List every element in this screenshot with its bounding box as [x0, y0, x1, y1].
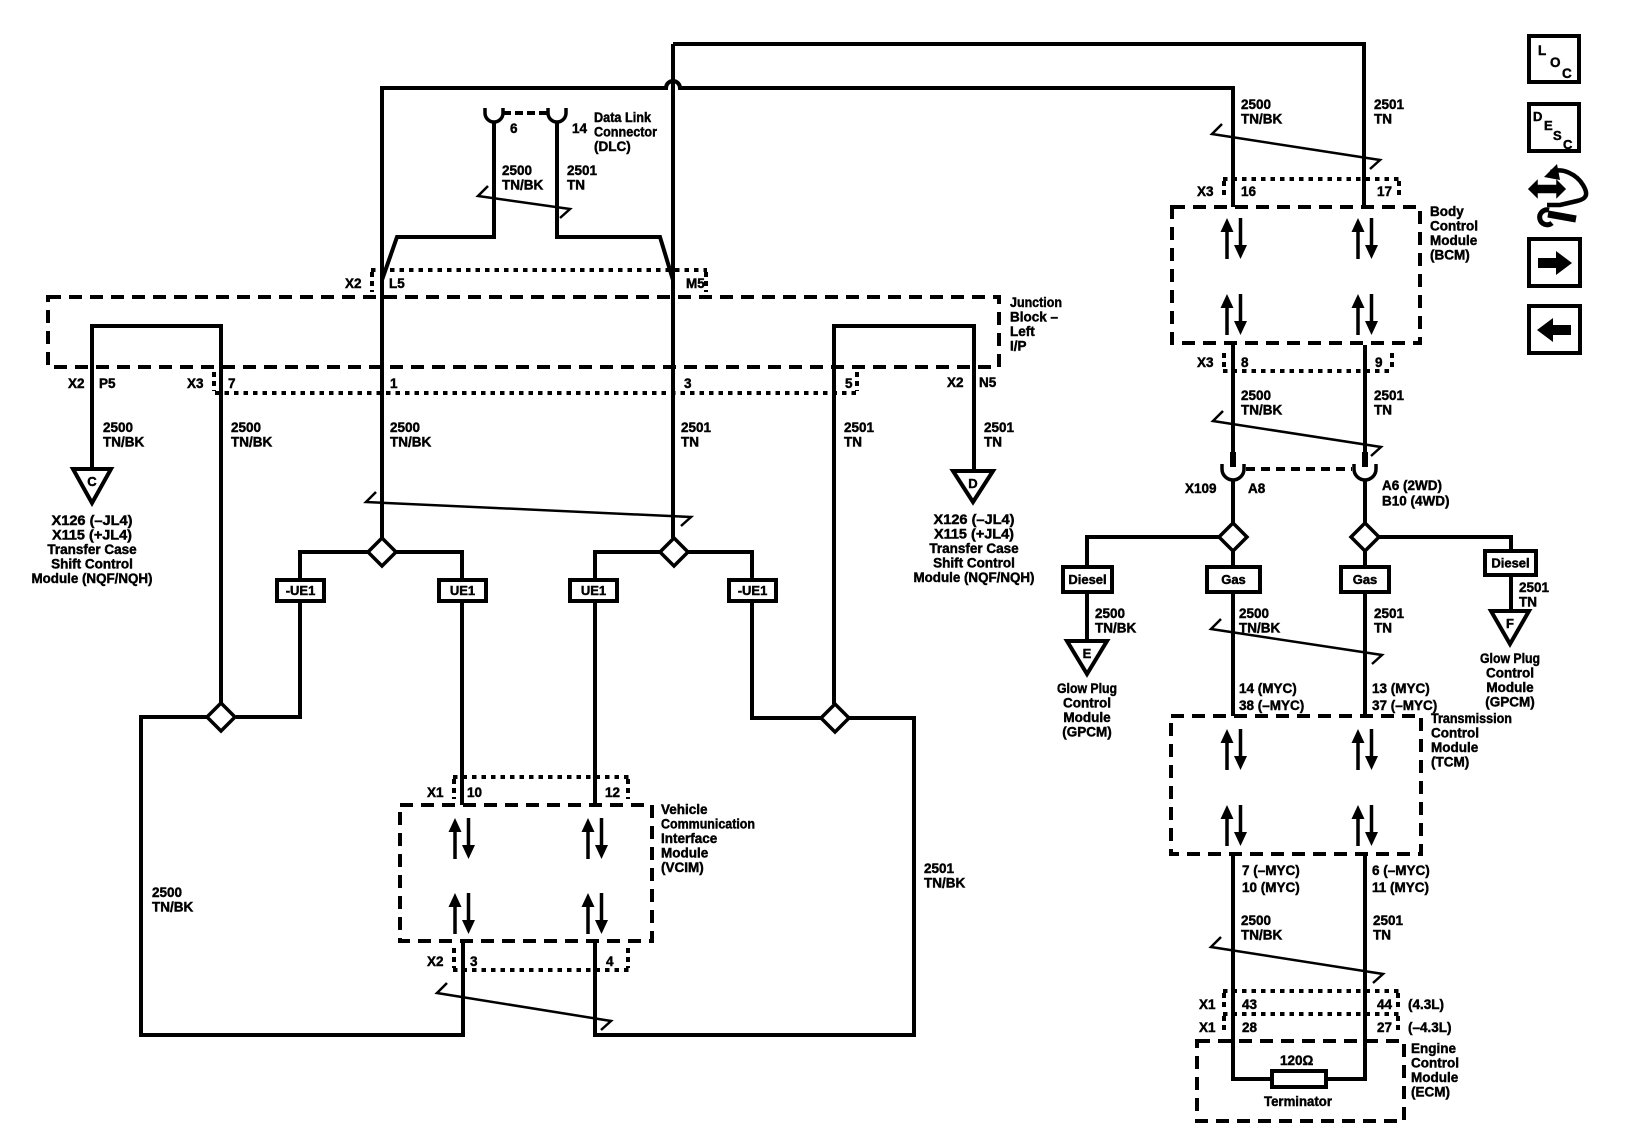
svg-text:TN: TN [844, 435, 862, 450]
svg-text:X115 (+JL4): X115 (+JL4) [934, 527, 1014, 542]
svg-text:-UE1: -UE1 [738, 583, 768, 598]
svg-text:43: 43 [1242, 997, 1258, 1012]
svg-text:Module (NQF/NQH): Module (NQF/NQH) [914, 570, 1035, 585]
svg-text:Connector: Connector [594, 125, 658, 140]
svg-text:(VCIM): (VCIM) [661, 860, 704, 875]
svg-text:Transmission: Transmission [1431, 711, 1512, 726]
svg-text:14 (MYC): 14 (MYC) [1239, 681, 1297, 696]
svg-text:2500: 2500 [1241, 388, 1271, 403]
svg-text:TN: TN [1374, 403, 1392, 418]
svg-text:Module: Module [1063, 710, 1111, 725]
svg-text:D: D [968, 476, 977, 491]
svg-text:16: 16 [1241, 184, 1257, 199]
svg-text:Junction: Junction [1010, 295, 1062, 310]
svg-text:N5: N5 [979, 375, 997, 390]
svg-text:7: 7 [228, 376, 236, 391]
svg-text:12: 12 [605, 785, 620, 800]
svg-text:2501: 2501 [924, 861, 955, 876]
svg-text:Communication: Communication [661, 817, 755, 832]
svg-text:Gas: Gas [1353, 572, 1378, 587]
svg-text:2500: 2500 [502, 163, 532, 178]
svg-text:X3: X3 [1197, 184, 1214, 199]
svg-text:S: S [1553, 128, 1562, 143]
svg-text:2500: 2500 [390, 420, 420, 435]
svg-text:Shift Control: Shift Control [51, 557, 133, 572]
svg-text:27: 27 [1377, 1020, 1392, 1035]
svg-text:Control: Control [1430, 219, 1478, 234]
svg-text:X2: X2 [345, 276, 362, 291]
svg-text:Gas: Gas [1221, 572, 1246, 587]
svg-text:Interface: Interface [661, 831, 718, 846]
svg-text:2501: 2501 [984, 420, 1015, 435]
svg-text:TN/BK: TN/BK [103, 435, 144, 450]
svg-text:X1: X1 [1199, 1020, 1216, 1035]
svg-text:X3: X3 [187, 376, 204, 391]
svg-text:Module (NQF/NQH): Module (NQF/NQH) [32, 571, 153, 586]
svg-text:Vehicle: Vehicle [661, 802, 708, 817]
svg-text:2500: 2500 [152, 885, 182, 900]
svg-text:A8: A8 [1248, 481, 1266, 496]
svg-text:17: 17 [1377, 184, 1392, 199]
svg-text:1: 1 [390, 376, 398, 391]
svg-text:6: 6 [510, 121, 518, 136]
svg-text:C: C [87, 474, 97, 489]
svg-text:Glow Plug: Glow Plug [1480, 651, 1540, 666]
svg-text:3: 3 [684, 376, 692, 391]
svg-text:Control: Control [1431, 726, 1479, 741]
svg-text:TN/BK: TN/BK [1095, 621, 1136, 636]
svg-text:Terminator: Terminator [1264, 1094, 1333, 1109]
svg-text:X1: X1 [1199, 997, 1216, 1012]
svg-text:Transfer Case: Transfer Case [47, 542, 137, 557]
svg-text:Diesel: Diesel [1491, 556, 1529, 571]
svg-text:E: E [1083, 646, 1092, 661]
svg-text:4: 4 [606, 954, 614, 969]
svg-text:2501: 2501 [1374, 97, 1405, 112]
svg-text:(GPCM): (GPCM) [1485, 695, 1535, 710]
svg-text:13 (MYC): 13 (MYC) [1372, 681, 1430, 696]
svg-text:Glow Plug: Glow Plug [1057, 681, 1117, 696]
svg-text:38 (–MYC): 38 (–MYC) [1239, 698, 1304, 713]
svg-text:9: 9 [1375, 355, 1383, 370]
svg-text:28: 28 [1242, 1020, 1258, 1035]
svg-text:Transfer Case: Transfer Case [929, 541, 1019, 556]
svg-text:TN: TN [984, 435, 1002, 450]
svg-text:X115 (+JL4): X115 (+JL4) [52, 528, 132, 543]
svg-text:(ECM): (ECM) [1411, 1085, 1450, 1100]
svg-text:37 (–MYC): 37 (–MYC) [1372, 698, 1437, 713]
svg-text:5: 5 [845, 376, 853, 391]
svg-text:11 (MYC): 11 (MYC) [1372, 880, 1429, 895]
svg-text:D: D [1533, 109, 1542, 124]
svg-text:2501: 2501 [1374, 388, 1405, 403]
svg-text:2500: 2500 [1241, 97, 1271, 112]
svg-text:TN/BK: TN/BK [1241, 403, 1282, 418]
svg-text:14: 14 [572, 121, 588, 136]
svg-text:3: 3 [470, 954, 478, 969]
svg-text:X2: X2 [947, 375, 964, 390]
svg-text:X126 (–JL4): X126 (–JL4) [52, 513, 133, 528]
svg-text:Left: Left [1010, 324, 1035, 339]
svg-text:(DLC): (DLC) [594, 139, 631, 154]
svg-text:X2: X2 [427, 954, 444, 969]
svg-text:(–4.3L): (–4.3L) [1408, 1020, 1452, 1035]
svg-text:TN/BK: TN/BK [502, 178, 543, 193]
svg-text:X126 (–JL4): X126 (–JL4) [934, 512, 1015, 527]
svg-text:2501: 2501 [1373, 913, 1404, 928]
svg-text:(BCM): (BCM) [1430, 248, 1470, 263]
svg-text:2500: 2500 [1239, 606, 1269, 621]
svg-text:Module: Module [1430, 233, 1478, 248]
svg-text:A6 (2WD): A6 (2WD) [1382, 478, 1442, 493]
svg-text:6 (–MYC): 6 (–MYC) [1372, 863, 1430, 878]
svg-text:Module: Module [1431, 740, 1479, 755]
svg-text:Control: Control [1411, 1056, 1459, 1071]
svg-text:TN/BK: TN/BK [1241, 928, 1282, 943]
svg-text:Body: Body [1430, 204, 1464, 219]
svg-text:TN: TN [1519, 595, 1537, 610]
svg-text:2501: 2501 [1374, 606, 1405, 621]
svg-text:(4.3L): (4.3L) [1408, 997, 1444, 1012]
svg-text:X2: X2 [68, 376, 85, 391]
svg-text:C: C [1562, 66, 1572, 81]
svg-text:2501: 2501 [567, 163, 598, 178]
svg-text:2501: 2501 [844, 420, 875, 435]
svg-text:TN/BK: TN/BK [1239, 621, 1280, 636]
svg-text:X109: X109 [1185, 481, 1217, 496]
svg-text:44: 44 [1377, 997, 1393, 1012]
svg-text:E: E [1544, 118, 1553, 133]
svg-text:Data Link: Data Link [594, 110, 651, 125]
svg-text:Module: Module [1411, 1070, 1459, 1085]
svg-text:Module: Module [661, 846, 709, 861]
svg-text:L: L [1538, 43, 1546, 58]
svg-text:Shift Control: Shift Control [933, 556, 1015, 571]
svg-text:2500: 2500 [1095, 606, 1125, 621]
svg-text:B10 (4WD): B10 (4WD) [1382, 494, 1450, 509]
svg-text:TN: TN [1374, 621, 1392, 636]
svg-text:10: 10 [467, 785, 482, 800]
svg-text:-UE1: -UE1 [286, 583, 316, 598]
svg-text:2500: 2500 [103, 420, 133, 435]
svg-text:10 (MYC): 10 (MYC) [1242, 880, 1300, 895]
svg-text:(GPCM): (GPCM) [1062, 725, 1112, 740]
svg-text:2500: 2500 [231, 420, 261, 435]
svg-text:UE1: UE1 [450, 583, 475, 598]
svg-text:8: 8 [1241, 355, 1249, 370]
svg-text:TN/BK: TN/BK [231, 435, 272, 450]
svg-text:120Ω: 120Ω [1280, 1053, 1314, 1068]
svg-text:TN/BK: TN/BK [390, 435, 431, 450]
svg-text:Control: Control [1063, 696, 1111, 711]
svg-text:TN/BK: TN/BK [924, 876, 965, 891]
svg-text:Engine: Engine [1411, 1041, 1456, 1056]
svg-text:2501: 2501 [681, 420, 712, 435]
svg-text:X1: X1 [427, 785, 444, 800]
svg-text:2500: 2500 [1241, 913, 1271, 928]
svg-text:TN/BK: TN/BK [152, 900, 193, 915]
svg-text:X3: X3 [1197, 355, 1214, 370]
svg-text:TN/BK: TN/BK [1241, 112, 1282, 127]
svg-text:I/P: I/P [1010, 339, 1027, 354]
svg-text:O: O [1550, 55, 1561, 70]
svg-text:(TCM): (TCM) [1431, 755, 1469, 770]
svg-text:F: F [1506, 616, 1514, 631]
svg-text:Control: Control [1486, 666, 1534, 681]
svg-text:P5: P5 [99, 376, 116, 391]
svg-text:TN: TN [681, 435, 699, 450]
svg-text:TN: TN [567, 178, 585, 193]
svg-text:2501: 2501 [1519, 580, 1550, 595]
svg-text:Diesel: Diesel [1068, 572, 1106, 587]
svg-text:Module: Module [1486, 680, 1534, 695]
svg-text:TN: TN [1374, 112, 1392, 127]
svg-text:UE1: UE1 [581, 583, 606, 598]
svg-text:7 (–MYC): 7 (–MYC) [1242, 863, 1300, 878]
svg-text:L5: L5 [389, 276, 405, 291]
svg-text:M5: M5 [686, 276, 705, 291]
svg-text:Block –: Block – [1010, 310, 1059, 325]
svg-text:C: C [1563, 137, 1573, 152]
svg-text:TN: TN [1373, 928, 1391, 943]
